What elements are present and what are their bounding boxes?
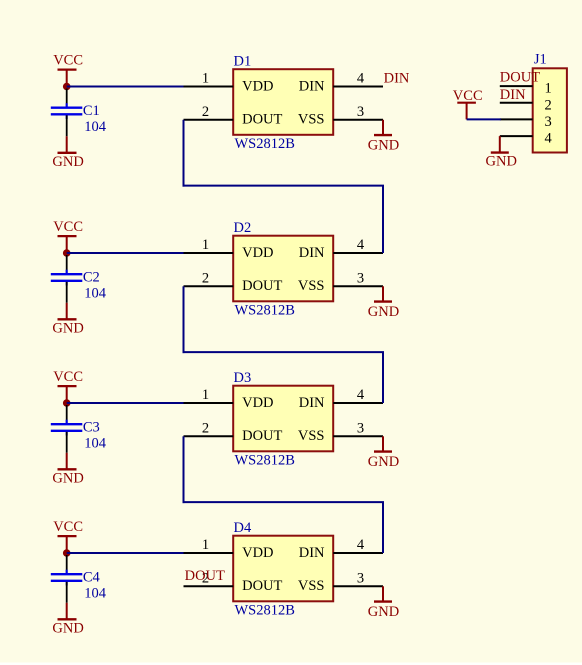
capacitor C4	[51, 555, 83, 603]
svg-text:VSS: VSS	[298, 428, 325, 444]
wire chain down to D4 pin 4	[382, 502, 384, 553]
ground symbol at J1 pin 4	[486, 136, 517, 169]
svg-text:DOUT: DOUT	[242, 428, 282, 444]
svg-text:3: 3	[357, 571, 364, 587]
IC D2 body (WS2812B)	[233, 236, 333, 302]
svg-text:104: 104	[84, 119, 107, 135]
svg-text:DOUT: DOUT	[185, 568, 225, 584]
svg-text:VCC: VCC	[53, 219, 83, 235]
wire D2 DOUT chain down segment	[183, 286, 185, 353]
svg-text:D3: D3	[234, 370, 252, 386]
D2 pin 3 stub	[333, 285, 383, 287]
svg-text:1: 1	[202, 71, 209, 87]
svg-text:104: 104	[84, 585, 107, 601]
D1 pin 3 stub	[333, 119, 383, 121]
svg-text:1: 1	[202, 387, 209, 403]
svg-text:WS2812B: WS2812B	[235, 452, 295, 468]
svg-text:4: 4	[357, 537, 365, 553]
svg-text:WS2812B: WS2812B	[235, 602, 295, 618]
wire VCC node to D3 pin 1	[67, 402, 185, 404]
svg-text:104: 104	[84, 285, 107, 301]
IC D1 body (WS2812B)	[233, 69, 333, 135]
ground symbol at D4 pin 3	[368, 586, 399, 620]
junction dot VCC/C1 node	[63, 83, 71, 91]
svg-text:VCC: VCC	[53, 519, 83, 535]
D4 pin 1 stub	[184, 552, 234, 554]
D3 pin 4 stub	[333, 402, 383, 404]
J1 pin 3 stub	[500, 118, 533, 120]
power port VCC (row D3)	[53, 369, 83, 401]
wire D3 DOUT chain down segment	[183, 436, 185, 503]
svg-text:VCC: VCC	[53, 369, 83, 385]
svg-text:C3: C3	[83, 420, 100, 436]
svg-text:3: 3	[357, 104, 364, 120]
svg-text:D4: D4	[234, 520, 252, 536]
wire chain down to D3 pin 4	[382, 352, 384, 403]
svg-text:DOUT: DOUT	[242, 278, 282, 294]
junction dot VCC/C4 node	[63, 549, 71, 557]
wire VCC node to D1 pin 1	[67, 86, 185, 88]
svg-text:D1: D1	[234, 53, 252, 69]
svg-text:4: 4	[357, 237, 365, 253]
wire chain horizontal segment to D4	[183, 501, 385, 503]
D2 pin 2 stub	[184, 285, 234, 287]
J1 pin 4 stub	[500, 135, 533, 137]
connector J1 body	[533, 68, 567, 152]
D2 pin 4 stub	[333, 252, 383, 254]
ground symbol below C3	[52, 453, 83, 487]
svg-text:C4: C4	[83, 570, 101, 586]
svg-text:2: 2	[202, 271, 209, 287]
svg-text:1: 1	[202, 237, 209, 253]
svg-text:DIN: DIN	[299, 78, 325, 94]
svg-text:WS2812B: WS2812B	[235, 136, 295, 152]
D3 pin 2 stub	[184, 435, 234, 437]
D1 pin 2 stub	[184, 119, 234, 121]
svg-text:DIN: DIN	[299, 245, 325, 261]
svg-text:VCC: VCC	[453, 88, 483, 104]
capacitor C1	[51, 89, 83, 137]
svg-text:GND: GND	[52, 321, 83, 337]
svg-text:VDD: VDD	[242, 545, 273, 561]
svg-text:3: 3	[357, 421, 364, 437]
svg-text:VDD: VDD	[242, 78, 273, 94]
svg-text:DIN: DIN	[384, 70, 410, 86]
D4 pin 4 stub	[333, 552, 383, 554]
svg-text:DOUT: DOUT	[500, 70, 540, 86]
svg-text:VDD: VDD	[242, 245, 273, 261]
svg-text:D2: D2	[234, 220, 252, 236]
svg-text:VSS: VSS	[298, 578, 325, 594]
J1 pin 2 stub	[500, 102, 533, 104]
svg-text:GND: GND	[368, 304, 399, 320]
D1 pin 4 stub	[333, 86, 383, 88]
svg-text:DIN: DIN	[500, 87, 526, 103]
svg-text:VSS: VSS	[298, 278, 325, 294]
wire J1 VCC to pin 3	[467, 118, 501, 120]
capacitor C3	[51, 405, 83, 453]
svg-text:GND: GND	[368, 454, 399, 470]
power port VCC at J1 pin 3	[453, 88, 483, 120]
svg-text:DOUT: DOUT	[242, 578, 282, 594]
power port VCC (row D4)	[53, 519, 83, 551]
svg-text:VSS: VSS	[298, 112, 325, 128]
svg-text:1: 1	[202, 537, 209, 553]
svg-text:3: 3	[357, 271, 364, 287]
svg-text:C1: C1	[83, 103, 100, 119]
svg-text:4: 4	[545, 131, 553, 147]
svg-text:C2: C2	[83, 270, 100, 286]
svg-text:2: 2	[202, 421, 209, 437]
svg-text:GND: GND	[52, 154, 83, 170]
D2 pin 1 stub	[184, 252, 234, 254]
wire chain horizontal segment to D2	[183, 185, 385, 187]
D1 pin 1 stub	[184, 86, 234, 88]
D4 pin 3 stub	[333, 585, 383, 587]
D3 pin 1 stub	[184, 402, 234, 404]
svg-text:DOUT: DOUT	[242, 112, 282, 128]
svg-text:2: 2	[202, 104, 209, 120]
svg-text:GND: GND	[368, 137, 399, 153]
svg-text:4: 4	[357, 387, 365, 403]
svg-text:J1: J1	[534, 51, 547, 67]
svg-text:GND: GND	[52, 471, 83, 487]
svg-text:DIN: DIN	[299, 545, 325, 561]
ground symbol at D1 pin 3	[368, 120, 399, 154]
power port VCC (row D1)	[53, 53, 83, 85]
ground symbol below C2	[52, 303, 83, 337]
svg-text:VDD: VDD	[242, 395, 273, 411]
svg-text:4: 4	[357, 71, 365, 87]
svg-text:1: 1	[545, 81, 552, 97]
svg-text:GND: GND	[368, 604, 399, 620]
svg-text:GND: GND	[486, 153, 517, 169]
ground symbol at D2 pin 3	[368, 286, 399, 320]
junction dot VCC/C3 node	[63, 399, 71, 407]
wire chain horizontal segment to D3	[183, 351, 385, 353]
svg-text:DIN: DIN	[299, 395, 325, 411]
D3 pin 3 stub	[333, 435, 383, 437]
svg-text:WS2812B: WS2812B	[235, 302, 295, 318]
ground symbol below C1	[52, 136, 83, 170]
J1 pin 1 stub	[500, 85, 533, 87]
svg-text:VCC: VCC	[53, 53, 83, 69]
wire chain down to D2 pin 4	[382, 186, 384, 253]
IC D3 body (WS2812B)	[233, 386, 333, 452]
capacitor C2	[51, 255, 83, 303]
power port VCC (row D2)	[53, 219, 83, 251]
D4 pin 2 stub	[184, 585, 234, 587]
wire VCC node to D2 pin 1	[67, 252, 185, 254]
wire VCC node to D4 pin 1	[67, 552, 185, 554]
IC D4 body (WS2812B)	[233, 536, 333, 602]
wire D1 DOUT chain down segment	[183, 120, 185, 187]
svg-text:GND: GND	[52, 621, 83, 637]
ground symbol below C4	[52, 603, 83, 637]
ground symbol at D3 pin 3	[368, 436, 399, 470]
svg-text:3: 3	[545, 114, 552, 130]
svg-text:104: 104	[84, 435, 107, 451]
svg-text:2: 2	[545, 97, 552, 113]
junction dot VCC/C2 node	[63, 249, 71, 257]
